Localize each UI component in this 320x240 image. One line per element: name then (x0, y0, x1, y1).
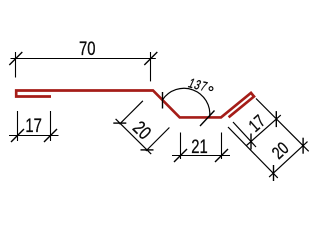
dimension 70: left tick (9, 52, 22, 65)
svg-text:17: 17 (25, 115, 41, 136)
dimension 70: dimension line (11, 58, 156, 60)
dimension 20 left: lower extension line (146, 128, 170, 152)
angle 137: degree circle (209, 87, 213, 91)
dimension 17 left: left extension line (17, 111, 19, 141)
dimension 17 left: left tick (11, 129, 24, 142)
dimension 70: right extension line (150, 52, 152, 81)
dimension 17 left: right extension line (50, 111, 52, 141)
dimension 20 right: lower tick (273, 165, 275, 181)
dimension 17 left: right tick (44, 129, 57, 142)
dimension 70: right tick (144, 52, 157, 65)
dimension 20 left: upper extension line (120, 101, 143, 124)
flashing profile (red sheet metal with hemmed edges) (16, 91, 254, 118)
angle 137: tick on bottom end (200, 111, 215, 127)
angle 137: arc (162, 88, 209, 117)
dimension 20 left (slope): dimension line (116, 119, 152, 154)
dimension 21: left extension line (180, 133, 182, 160)
dimension 21: left tick (174, 149, 187, 162)
dimension 21 (bottom): dimension line (172, 155, 230, 157)
dimension 21: right tick (215, 149, 228, 162)
extension line from hem free end (233, 122, 256, 147)
angle 137: tick on slope end (162, 92, 164, 109)
dimension 17 left (hem): dimension line (9, 135, 59, 137)
dimension 20 right: upper tick (302, 138, 304, 154)
extension line from hem fold tip (256, 99, 309, 152)
dimension 17 right (upslope hem): dimension line (247, 115, 281, 145)
dimension 21: right extension line (221, 133, 223, 160)
dimension 70: left extension line (15, 52, 17, 78)
dimension 20 right (upslope): dimension line (269, 142, 307, 178)
svg-text:21: 21 (191, 136, 207, 157)
extension line from upslope bottom corner (228, 127, 278, 178)
dimension 20 left: upper tick (113, 122, 126, 124)
dimension 17 right: lower tick (250, 134, 252, 150)
dimension 17 right: upper tick (275, 111, 277, 127)
dimension 20 left: lower tick (141, 149, 154, 151)
svg-text:70: 70 (79, 38, 95, 59)
